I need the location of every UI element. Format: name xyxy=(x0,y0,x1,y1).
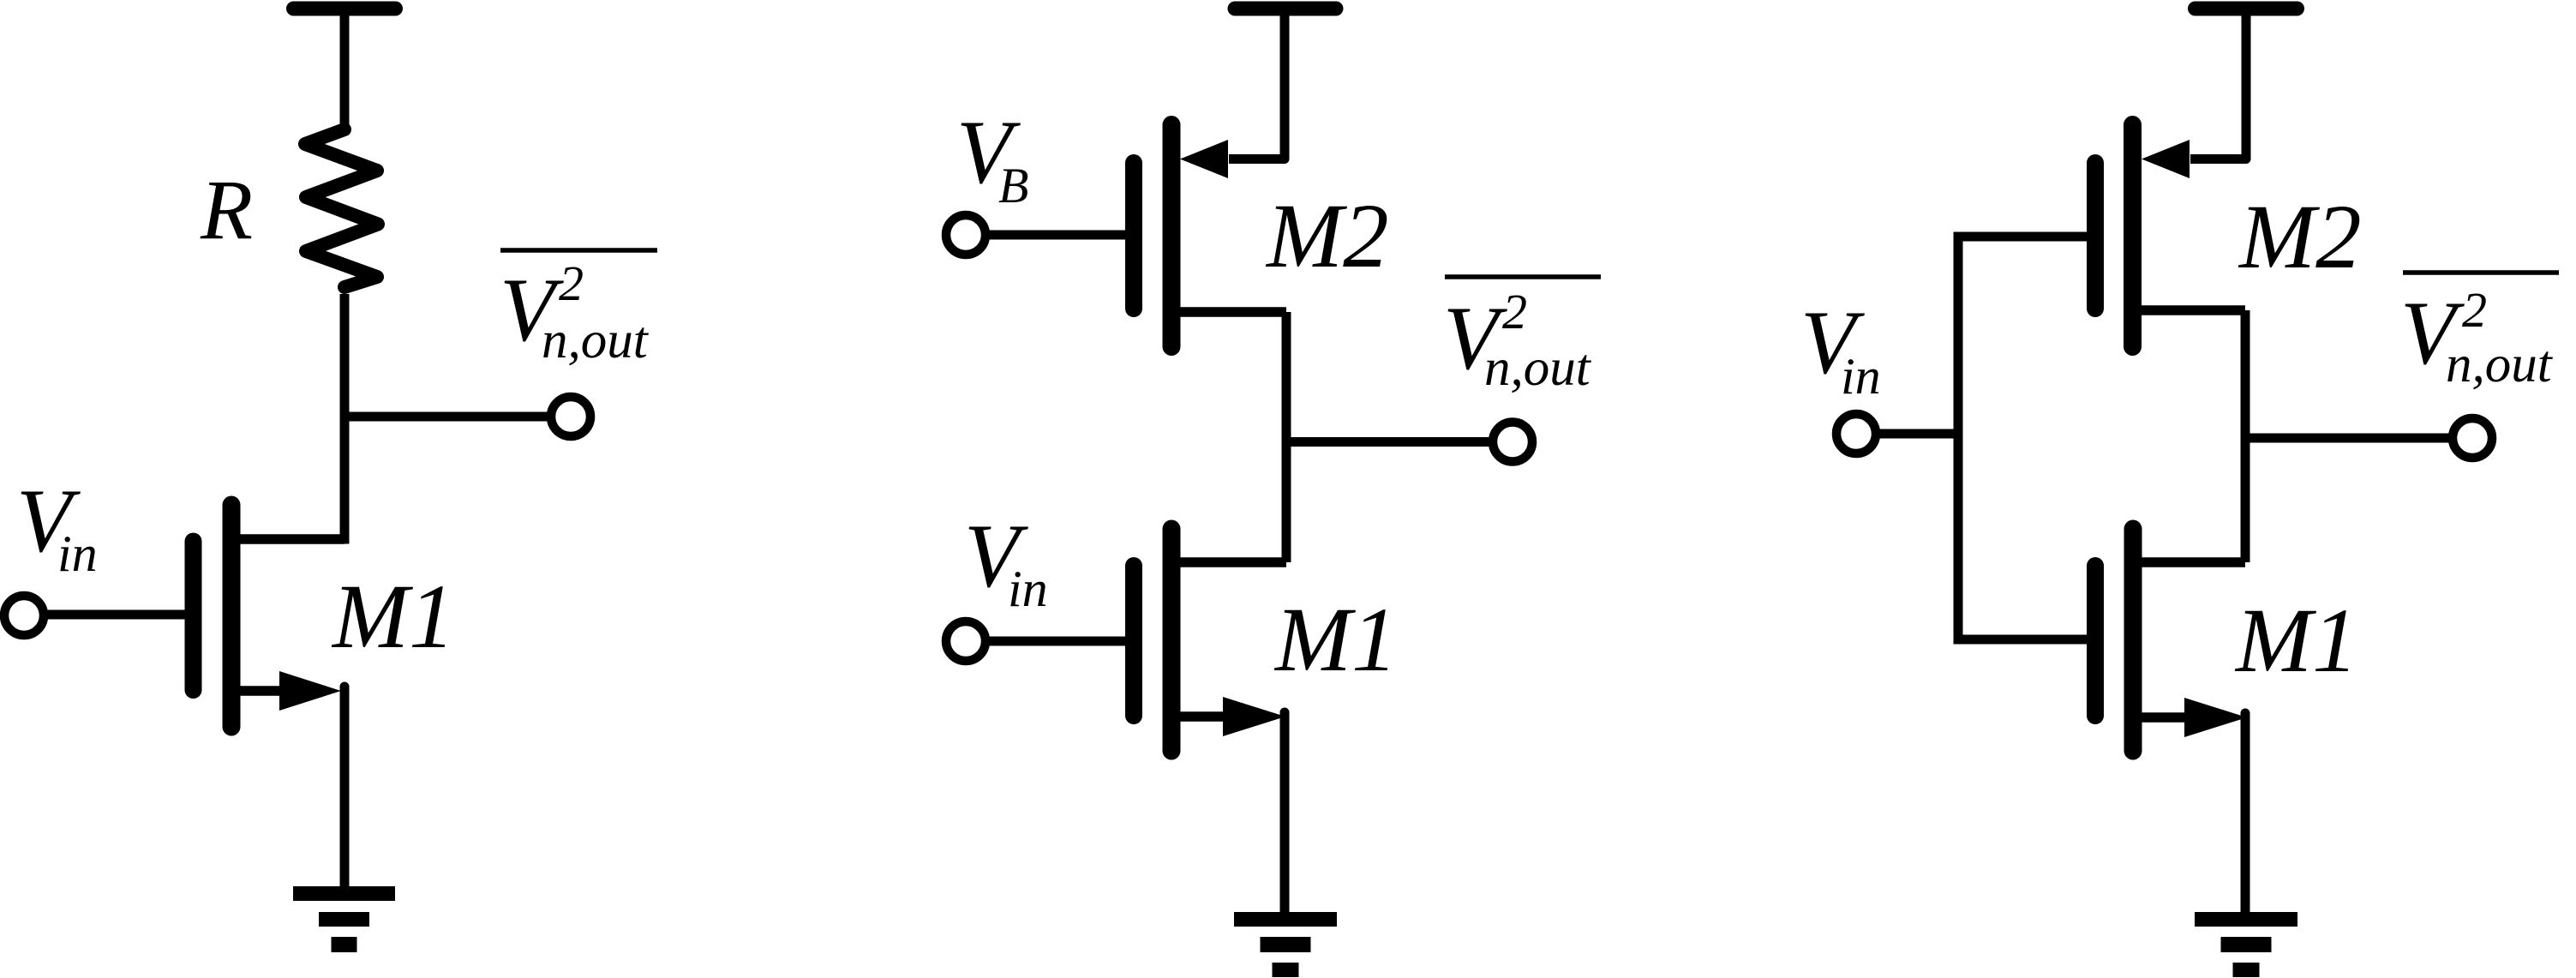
svg-text:in: in xyxy=(57,525,98,582)
svg-text:M2: M2 xyxy=(2238,187,2362,288)
svg-text:R: R xyxy=(200,162,253,257)
svg-text:in: in xyxy=(1008,561,1048,617)
svg-text:n,out: n,out xyxy=(2446,336,2554,393)
svg-text:2: 2 xyxy=(1502,284,1527,339)
svg-text:M1: M1 xyxy=(331,567,455,668)
svg-text:n,out: n,out xyxy=(542,312,650,369)
svg-text:2: 2 xyxy=(559,255,584,311)
svg-text:n,out: n,out xyxy=(1484,339,1592,397)
svg-text:M1: M1 xyxy=(2234,591,2358,692)
svg-text:B: B xyxy=(998,158,1028,213)
svg-text:in: in xyxy=(1841,348,1881,405)
svg-text:M1: M1 xyxy=(1273,590,1398,691)
svg-text:2: 2 xyxy=(2462,282,2487,338)
svg-text:M2: M2 xyxy=(1265,186,1389,287)
